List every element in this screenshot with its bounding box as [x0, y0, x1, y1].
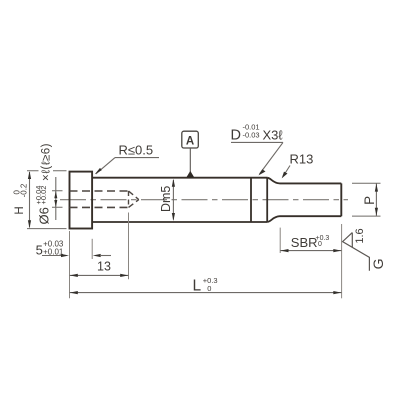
H dimension extension lines: [27, 170, 67, 172]
pin head outline: [70, 172, 93, 229]
centerline: [60, 199, 348, 201]
svg-text:P: P: [362, 196, 377, 205]
svg-text:D: D: [231, 127, 241, 143]
step line 1: [250, 178, 252, 222]
datum A box: [182, 131, 199, 148]
svg-text:R≤0.5: R≤0.5: [119, 143, 154, 158]
svg-text:5: 5: [36, 242, 43, 257]
svg-text:Ø6: Ø6: [37, 207, 52, 224]
step line 2: [266, 178, 268, 222]
svg-text:0: 0: [318, 241, 322, 248]
datum leader: [189, 148, 191, 172]
P dimension: [352, 183, 381, 216]
svg-text:0: 0: [207, 284, 211, 293]
svg-text:1.6: 1.6: [354, 228, 366, 243]
svg-text:A: A: [186, 136, 194, 148]
svg-text:L: L: [193, 278, 202, 295]
svg-text:-0.03: -0.03: [243, 130, 260, 139]
L dimension: [341, 224, 343, 298]
hole end dashed vertical: [128, 191, 130, 207]
svg-text:13: 13: [97, 259, 111, 273]
svg-text:-0.2: -0.2: [20, 183, 29, 197]
shank outline: [93, 178, 267, 222]
hole dia dimension: [52, 191, 63, 208]
13 dimension: [128, 213, 130, 280]
svg-text:Dm5: Dm5: [159, 186, 173, 212]
H dimension line: [29, 172, 31, 227]
datum triangle: [187, 171, 194, 177]
SBR dimension: [279, 228, 281, 253]
5 dimension: [69, 231, 71, 298]
svg-text:R13: R13: [290, 152, 314, 167]
hidden hole dashed lines: [70, 190, 129, 192]
svg-text:×ℓ(ℓ≥6): ×ℓ(ℓ≥6): [41, 143, 53, 181]
svg-text:G: G: [370, 258, 386, 269]
neck R13 top: [267, 178, 279, 184]
neck R13 bottom: [267, 216, 279, 222]
svg-text:+0.01: +0.01: [43, 247, 64, 256]
svg-text:H: H: [14, 206, 26, 214]
small diameter section: [280, 183, 342, 216]
Dm5 dimension: [172, 180, 174, 220]
svg-text:X3ℓ: X3ℓ: [263, 128, 284, 143]
drill cone dashed: [129, 191, 139, 207]
svg-text:+0.02: +0.02: [39, 186, 48, 205]
svg-text:SBR: SBR: [291, 235, 318, 250]
surface finish symbol: [343, 233, 370, 271]
